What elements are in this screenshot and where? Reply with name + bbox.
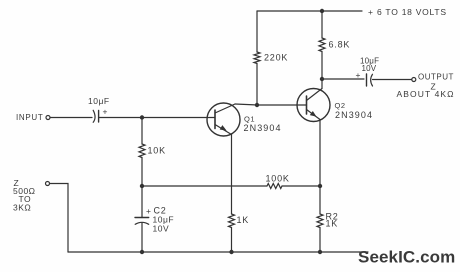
wire ground rail — [68, 251, 368, 253]
wire node to Q2 base — [257, 104, 307, 106]
terminal OUTPUT — [412, 78, 416, 82]
node bias junction — [140, 184, 144, 188]
svg-text:10V: 10V — [153, 224, 170, 234]
terminal input — [46, 116, 50, 120]
svg-text:+: + — [103, 107, 108, 117]
wire cap to Q1 base — [99, 117, 215, 119]
wire C2 to ground rail — [141, 223, 143, 252]
node feedback junction at R2 top — [318, 184, 322, 188]
wire input terminal to cap — [50, 117, 92, 119]
resistor 10K — [139, 144, 145, 158]
svg-text:ABOUT 4KΩ: ABOUT 4KΩ — [397, 89, 455, 99]
wire Z terminal to ground rail — [50, 184, 69, 253]
svg-text:+: + — [356, 70, 361, 80]
node Q1 base junction — [140, 115, 144, 119]
svg-text:+: + — [368, 7, 373, 17]
wire feedback line left section — [142, 185, 267, 187]
wire Q1 emitter down — [231, 135, 233, 215]
capacitor C2 10uF 10V — [135, 206, 174, 234]
wire 10K to bias node — [141, 158, 143, 187]
wire Q1 base node down to 10K — [141, 118, 143, 145]
wire 1K to ground rail — [231, 228, 233, 253]
wire top supply rail — [257, 10, 362, 12]
svg-text:1K: 1K — [326, 219, 339, 229]
node supply junction — [320, 9, 324, 13]
resistor 1K (Q1 emitter) — [229, 214, 235, 228]
resistor 6.8K — [319, 38, 325, 52]
wire R2 to ground rail — [319, 228, 321, 253]
wire bias node to C2 — [141, 186, 143, 218]
svg-text:Q2: Q2 — [335, 101, 346, 110]
resistor 100K — [267, 184, 282, 189]
terminal Z — [46, 182, 50, 186]
wire cap to output terminal — [373, 79, 412, 81]
wire left branch upper (rail to 220K) — [256, 11, 258, 52]
label Z 500 ohm TO 3K — [13, 178, 36, 213]
wire feedback node to R2 — [319, 186, 321, 214]
svg-text:2N3904: 2N3904 — [244, 123, 282, 133]
capacitor C1 10uF input — [88, 96, 110, 122]
node ground junction R2 — [318, 250, 322, 254]
wire 6.8K to Q2 collector node — [321, 52, 323, 80]
svg-text:10μF: 10μF — [88, 96, 110, 106]
wire 6.8K branch upper — [321, 11, 323, 38]
svg-text:2N3904: 2N3904 — [335, 110, 373, 120]
svg-text:10V: 10V — [362, 64, 377, 73]
resistor R2 1K — [317, 214, 323, 228]
resistor 220K — [254, 52, 260, 64]
node Q2 collector junction — [320, 77, 324, 81]
label +6 TO 18 VOLTS — [368, 7, 447, 17]
capacitor C3 10uF 10V output — [356, 57, 380, 87]
node ground junction C2 — [140, 250, 144, 254]
wire left branch lower (220K to node) — [256, 64, 258, 106]
svg-text:6 TO 18 VOLTS: 6 TO 18 VOLTS — [377, 7, 447, 17]
svg-text:6.8K: 6.8K — [329, 40, 351, 50]
svg-text:1K: 1K — [237, 215, 250, 225]
transistor Q1 2N3904 — [207, 103, 282, 136]
wire output node to coupling cap — [322, 78, 364, 80]
node Q1 collector / Q2 base junction — [255, 103, 259, 107]
svg-text:OUTPUT: OUTPUT — [418, 73, 454, 82]
svg-text:+: + — [146, 206, 151, 216]
svg-text:INPUT: INPUT — [16, 113, 44, 122]
svg-text:10K: 10K — [148, 146, 166, 156]
svg-text:SeekIC.com: SeekIC.com — [358, 248, 455, 267]
svg-text:220K: 220K — [264, 53, 288, 63]
label INPUT — [16, 113, 44, 122]
label OUTPUT Z ABOUT 4K — [397, 73, 455, 100]
svg-text:3KΩ: 3KΩ — [13, 203, 31, 213]
wire feedback line right section — [282, 185, 320, 187]
transistor Q2 2N3904 — [297, 79, 373, 122]
svg-text:100K: 100K — [266, 174, 290, 184]
node ground junction 1K — [229, 250, 233, 254]
wire Q2 emitter down to feedback node — [319, 120, 321, 187]
